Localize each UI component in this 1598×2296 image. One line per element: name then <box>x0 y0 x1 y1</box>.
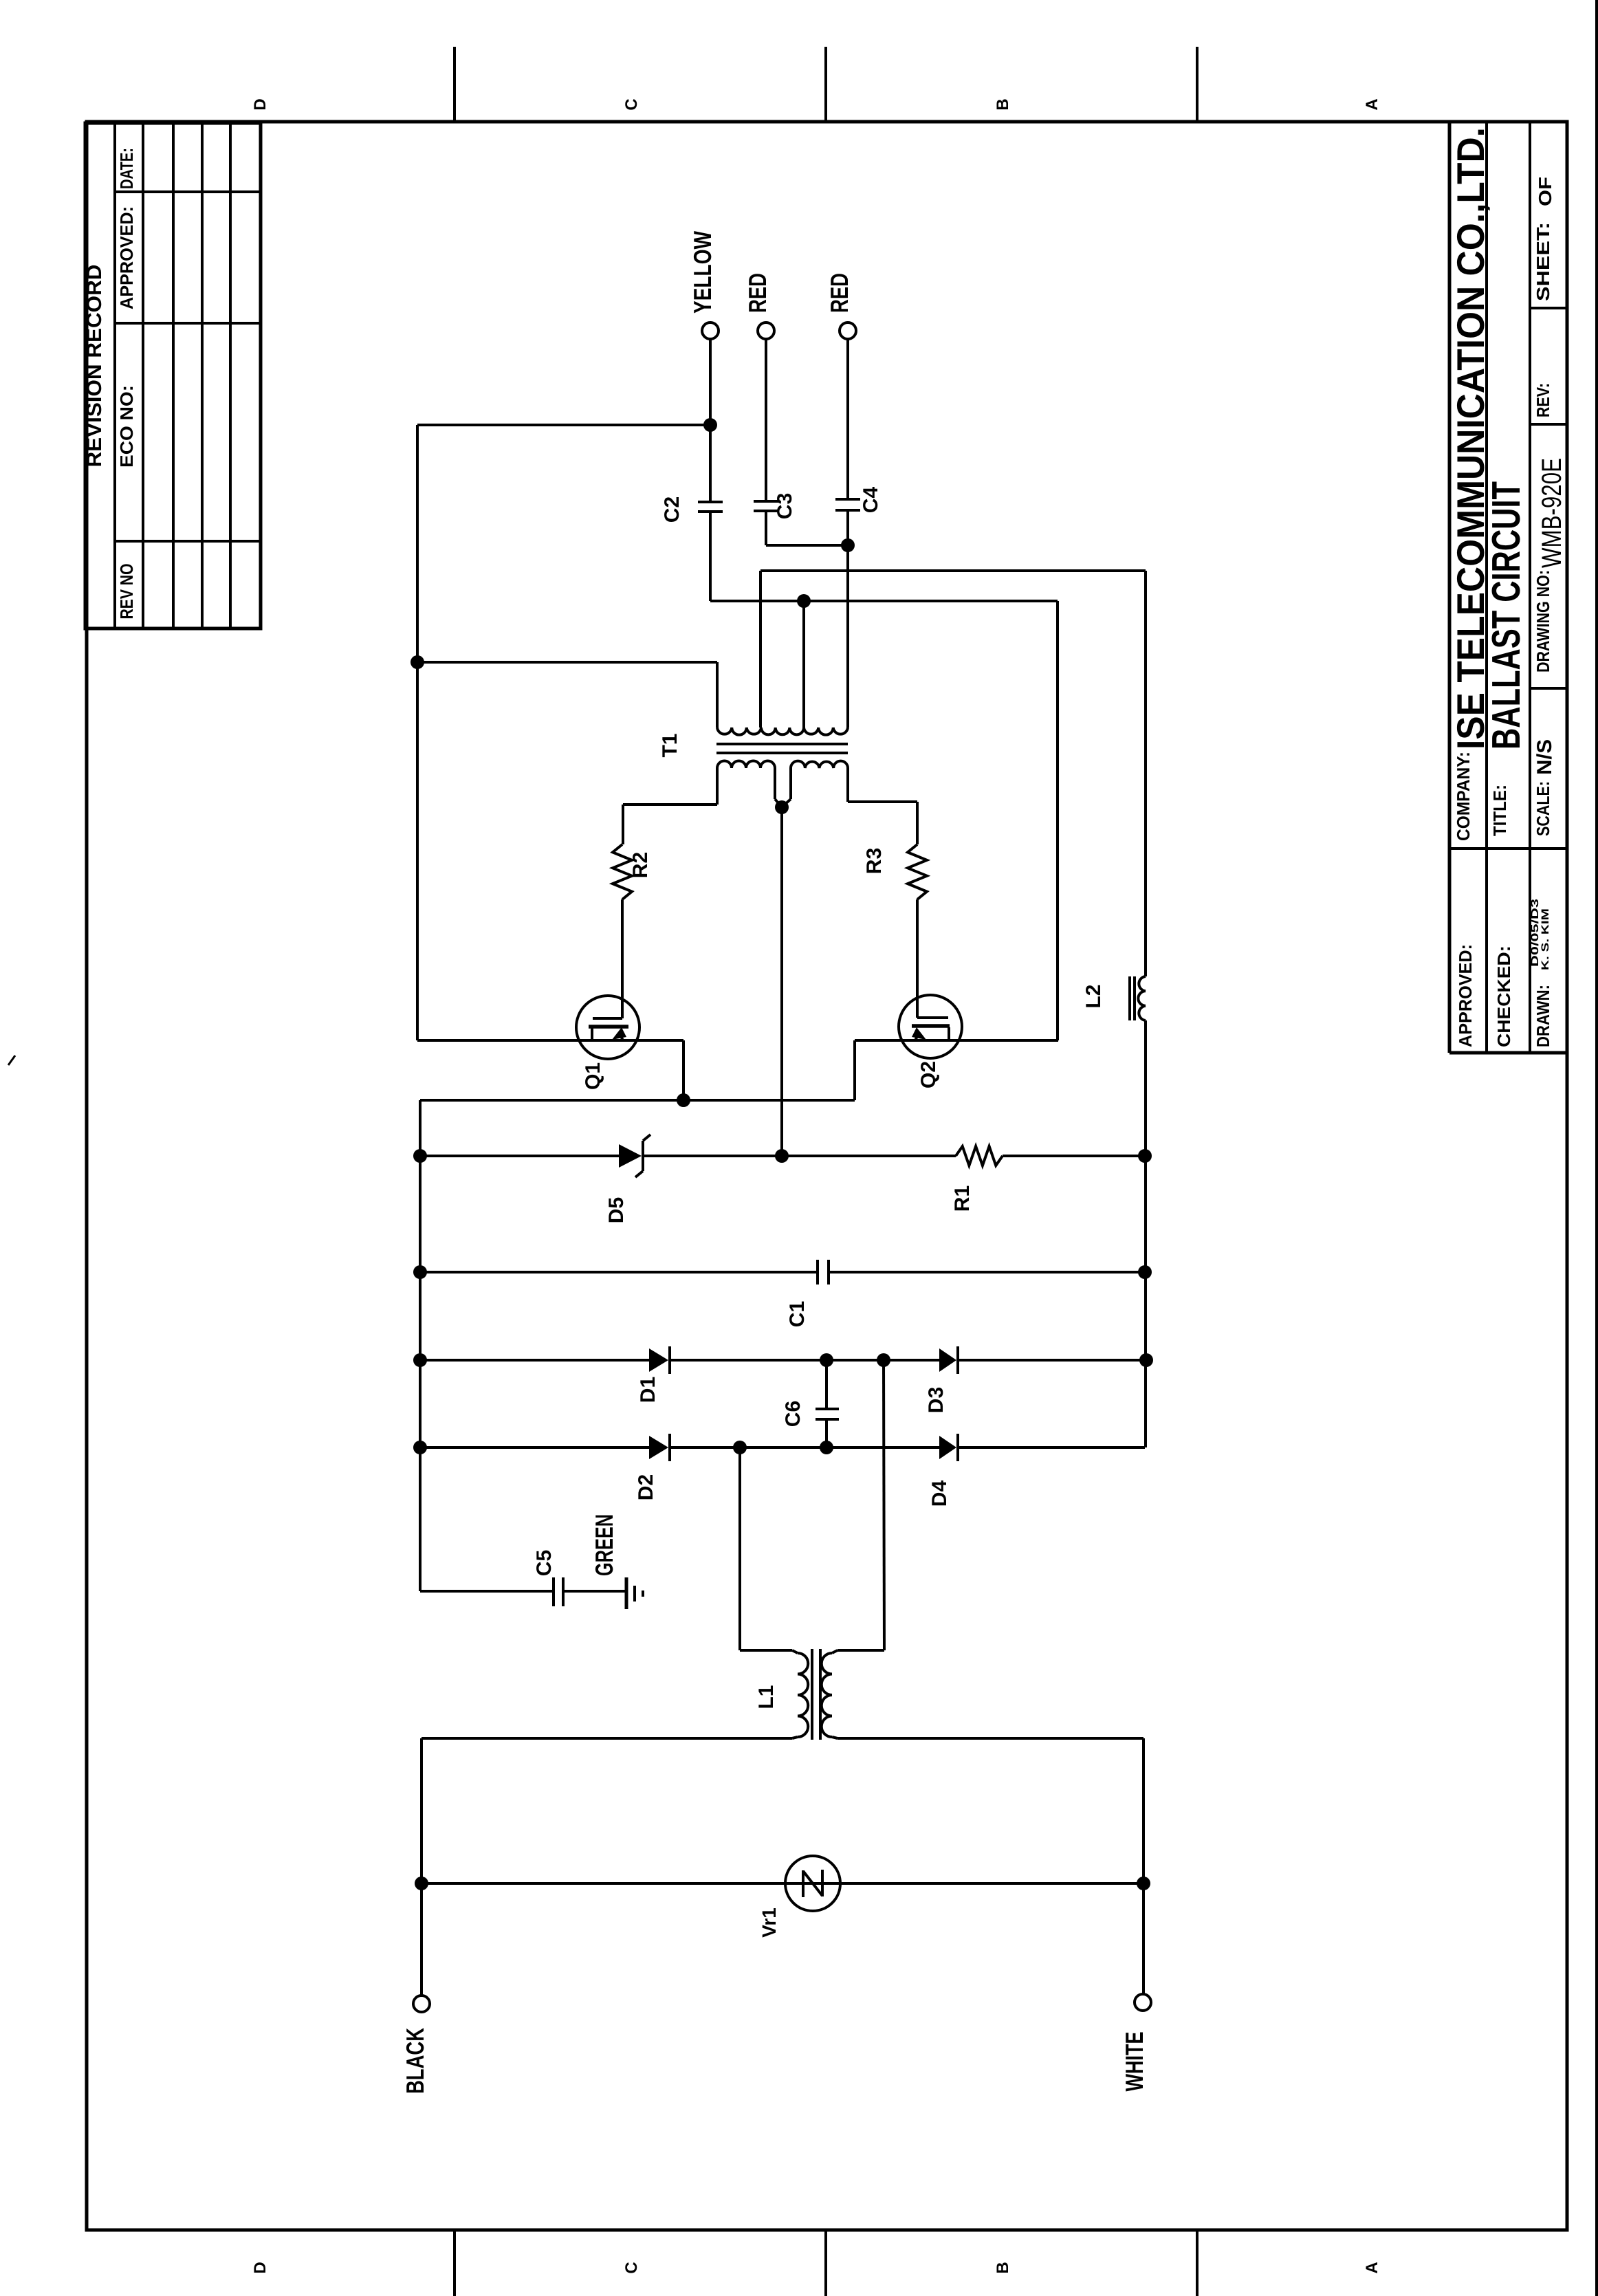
diode D2 <box>420 1446 649 1449</box>
svg-text:BLACK: BLACK <box>401 2028 429 2094</box>
junction <box>413 1353 427 1367</box>
wire <box>416 425 419 1040</box>
capacitor C3 <box>765 339 767 501</box>
svg-text:T1: T1 <box>659 733 681 757</box>
wire <box>422 1882 1143 1885</box>
svg-text:APPROVED:: APPROVED: <box>1455 944 1476 1047</box>
svg-text:R2: R2 <box>629 852 652 878</box>
svg-text:C3: C3 <box>774 493 796 519</box>
inductor L2 <box>1138 976 1146 1020</box>
terminal BLACK <box>413 1996 430 2012</box>
wire <box>958 1446 1145 1449</box>
diode D5 (zener) <box>420 1155 619 1157</box>
capacitor C4 <box>846 339 849 499</box>
junction <box>775 800 789 814</box>
capacitor C5 <box>420 1590 552 1593</box>
wire <box>644 1155 956 1157</box>
junction <box>820 1441 833 1454</box>
junction <box>733 1441 747 1454</box>
svg-text:DRAWING NO:: DRAWING NO: <box>1533 570 1553 673</box>
diode D3 <box>939 1348 956 1372</box>
junction <box>413 1441 427 1454</box>
capacitor C1 <box>420 1271 818 1273</box>
svg-text:D4: D4 <box>928 1480 951 1507</box>
wire <box>780 807 783 1156</box>
svg-text:B: B <box>994 2262 1012 2273</box>
transistor Q2 <box>899 995 962 1058</box>
wire <box>1144 571 1147 976</box>
capacitor C2 <box>709 425 712 502</box>
svg-text:DRAWN:: DRAWN: <box>1533 985 1553 1047</box>
svg-text:R1: R1 <box>951 1185 974 1212</box>
svg-text:SCALE:: SCALE: <box>1533 781 1553 836</box>
svg-text:L1: L1 <box>755 1685 778 1709</box>
svg-text:D5: D5 <box>605 1197 628 1223</box>
wire <box>710 600 1058 602</box>
svg-text:RED: RED <box>825 273 853 313</box>
svg-text:C1: C1 <box>786 1301 809 1327</box>
wire <box>420 1099 855 1102</box>
junction <box>415 1877 428 1890</box>
svg-text:C6: C6 <box>782 1401 805 1427</box>
wire <box>621 899 624 1018</box>
wire <box>709 339 712 425</box>
wire <box>766 544 848 547</box>
wire <box>669 1446 939 1449</box>
svg-text:GREEN: GREEN <box>590 1514 618 1576</box>
junction <box>797 594 811 608</box>
resistor R3 <box>916 802 919 844</box>
resistor R2 <box>622 805 624 844</box>
junction <box>1138 1265 1152 1279</box>
svg-text:K. S. KIM: K. S. KIM <box>1540 908 1551 970</box>
svg-text:C2: C2 <box>661 496 683 523</box>
wire <box>738 1447 741 1650</box>
svg-text:REV NO: REV NO <box>116 564 137 620</box>
wire <box>420 1738 423 1996</box>
wire <box>958 1359 1146 1362</box>
svg-text:B: B <box>994 98 1012 110</box>
wire <box>1003 1155 1145 1157</box>
wire <box>417 661 717 664</box>
junction <box>1137 1877 1150 1890</box>
svg-text:A: A <box>1363 2262 1381 2273</box>
transistor Q1 <box>576 996 639 1059</box>
junction <box>1139 1353 1153 1367</box>
svg-text:D: D <box>251 2262 270 2273</box>
wire <box>716 768 719 805</box>
wire <box>1056 601 1059 1040</box>
junction <box>413 1265 427 1279</box>
inductor L1 <box>792 1650 798 1653</box>
svg-text:TITLE:: TITLE: <box>1489 785 1510 836</box>
junction <box>413 1149 427 1163</box>
junction <box>841 538 855 552</box>
junction <box>877 1353 890 1367</box>
transformer T1 <box>717 728 761 735</box>
svg-text:C: C <box>622 98 641 110</box>
wire <box>774 768 776 799</box>
junction <box>820 1353 833 1367</box>
wire <box>422 1737 792 1740</box>
svg-text:Q2: Q2 <box>917 1061 940 1089</box>
wire <box>916 899 919 1018</box>
svg-text:REV:: REV: <box>1533 383 1553 417</box>
junction <box>411 655 424 669</box>
svg-text:BALLAST CIRCUIT: BALLAST CIRCUIT <box>1484 481 1529 750</box>
svg-text:COMPANY:: COMPANY: <box>1453 752 1474 841</box>
svg-text:OF: OF <box>1535 177 1555 206</box>
wire <box>682 1040 685 1100</box>
capacitor C6 <box>825 1360 828 1409</box>
wire <box>417 1039 683 1042</box>
terminal RED <box>840 322 856 339</box>
svg-text:N/S: N/S <box>1533 739 1556 775</box>
svg-text:D1: D1 <box>637 1377 659 1403</box>
wire <box>669 1359 939 1362</box>
ground GREEN <box>625 1577 628 1609</box>
junction <box>775 1149 789 1163</box>
svg-text:D2: D2 <box>635 1474 657 1500</box>
svg-text:R3: R3 <box>863 848 886 874</box>
wire <box>846 768 849 802</box>
svg-text:WHITE: WHITE <box>1120 2032 1148 2092</box>
svg-text:A: A <box>1363 98 1381 110</box>
wire <box>1144 1020 1147 1447</box>
wire <box>838 1737 1143 1740</box>
wire <box>853 1040 856 1100</box>
svg-text:Q1: Q1 <box>582 1062 604 1090</box>
svg-text:YELLOW: YELLOW <box>688 231 716 314</box>
junction <box>677 1093 690 1107</box>
terminal YELLOW <box>702 322 719 339</box>
svg-text:Vr1: Vr1 <box>758 1907 780 1938</box>
diode D4 <box>939 1436 956 1459</box>
svg-text:CHECKED:: CHECKED: <box>1493 945 1514 1047</box>
svg-text:RED: RED <box>743 273 771 313</box>
svg-text:ECO NO:: ECO NO: <box>116 385 137 468</box>
junction <box>1138 1149 1152 1163</box>
terminal WHITE <box>1135 1994 1151 2011</box>
svg-text:C: C <box>622 2262 641 2273</box>
svg-text:DATE:: DATE: <box>116 148 137 189</box>
wire <box>802 601 805 728</box>
svg-text:REVISION RECORD: REVISION RECORD <box>83 265 106 468</box>
wire <box>419 1100 422 1591</box>
wire <box>1142 1738 1145 1994</box>
svg-text:WMB-920E: WMB-920E <box>1537 458 1567 568</box>
wire <box>417 424 710 426</box>
svg-text:D: D <box>251 98 270 110</box>
svg-text:C5: C5 <box>533 1550 556 1576</box>
diode D1 <box>420 1359 649 1362</box>
junction <box>703 418 717 432</box>
terminal RED <box>758 322 774 339</box>
resistor R1 <box>956 1146 1003 1166</box>
wire <box>884 1360 884 1650</box>
svg-text:D3: D3 <box>925 1387 948 1413</box>
wire <box>846 510 849 728</box>
svg-text:APPROVED:: APPROVED: <box>116 206 137 309</box>
svg-text:C4: C4 <box>860 487 882 514</box>
svg-text:SHEET:: SHEET: <box>1533 222 1553 301</box>
varistor Vr1 <box>785 1856 840 1911</box>
svg-text:L2: L2 <box>1082 984 1105 1008</box>
wire <box>760 569 1146 572</box>
